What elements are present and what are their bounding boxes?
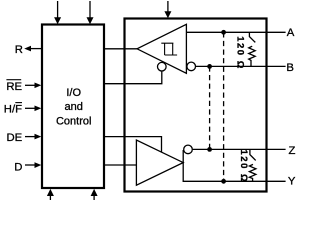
receiver amplifier — [137, 24, 186, 73]
wire R (I/O to receiver) — [104, 48, 138, 50]
wire driver output down — [183, 163, 285, 182]
wire D (I/O to driver) — [104, 164, 136, 166]
control input arrow top 1 — [57, 1, 59, 19]
svg-text:B: B — [286, 62, 294, 74]
RE overline — [6, 79, 21, 81]
device block — [125, 19, 267, 192]
node A junction — [221, 30, 226, 35]
node B junction — [207, 64, 212, 69]
svg-text:H/F: H/F — [4, 104, 22, 116]
pin H/F arrow — [25, 107, 36, 109]
pin DE arrow — [25, 136, 36, 138]
dashed wire A to Y — [223, 32, 225, 181]
pin D arrow — [25, 164, 36, 166]
termination switch top — [249, 32, 255, 42]
pin R arrow — [30, 48, 42, 50]
resistor RT2 120 ohm — [249, 164, 256, 181]
resistor RT1 120 ohm — [249, 46, 256, 66]
svg-text:I/O: I/O — [66, 87, 81, 99]
dashed wire B to Z — [209, 66, 211, 149]
svg-text:RE: RE — [6, 81, 22, 93]
control input arrow bottom 1 — [49, 195, 51, 201]
wire driver output up — [182, 150, 184, 163]
termination switch bottom — [250, 149, 256, 160]
svg-text:D: D — [14, 161, 22, 173]
svg-text:DE: DE — [7, 132, 23, 144]
receiver inverting input bubble — [187, 62, 196, 71]
control input arrow top 2 — [89, 1, 91, 19]
svg-text:Y: Y — [288, 176, 296, 188]
driver amplifier — [136, 140, 183, 185]
wire DE enable — [104, 137, 162, 153]
node Z junction — [207, 147, 212, 152]
svg-text:and: and — [65, 101, 83, 113]
node Y junction — [221, 179, 226, 184]
hysteresis symbol — [161, 43, 177, 55]
svg-text:Control: Control — [56, 116, 91, 128]
I/O and Control block — [42, 25, 104, 189]
wire B input — [196, 65, 286, 67]
svg-text:R: R — [15, 44, 23, 56]
driver inverting output bubble — [184, 145, 193, 154]
wire A input — [186, 31, 285, 33]
control input arrow bottom 2 — [93, 195, 95, 201]
pin RE arrow — [25, 84, 36, 86]
svg-text:Z: Z — [289, 145, 296, 157]
svg-text:A: A — [287, 27, 295, 39]
wire RE enable — [104, 71, 162, 84]
F overline — [15, 102, 22, 104]
svg-text:120 Ω: 120 Ω — [238, 150, 249, 184]
wire Z output — [193, 148, 286, 150]
control input arrow into device block — [167, 1, 169, 13]
svg-text:120 Ω: 120 Ω — [235, 36, 246, 70]
receiver enable bubble — [158, 62, 167, 71]
